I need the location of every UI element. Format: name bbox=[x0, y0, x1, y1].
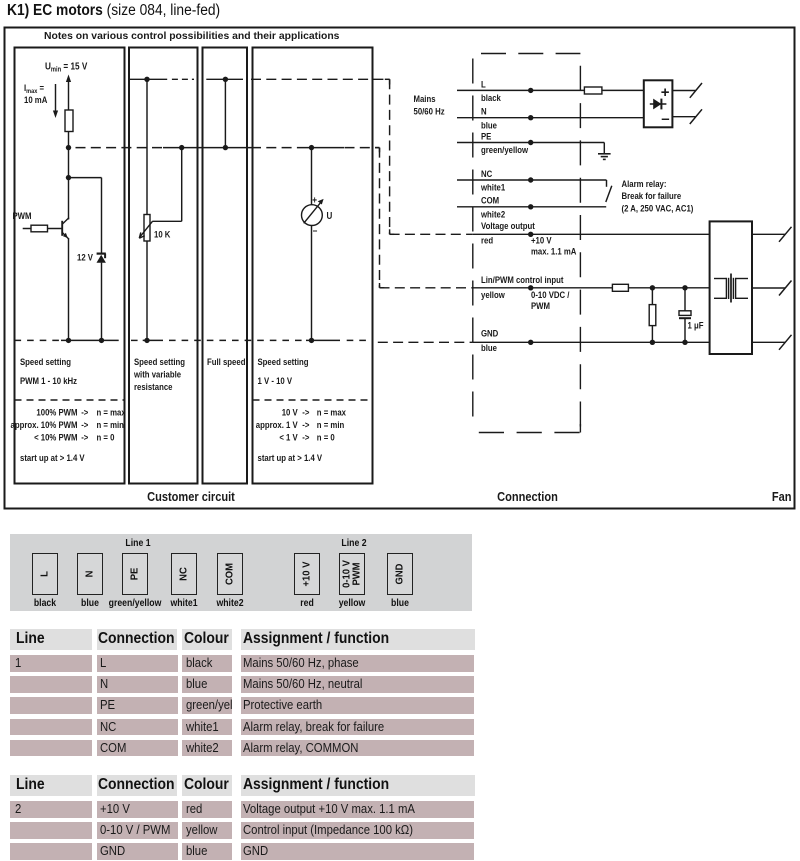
svg-text:Connection: Connection bbox=[497, 489, 558, 504]
svg-text:GND: GND bbox=[481, 328, 498, 339]
svg-text:blue: blue bbox=[481, 120, 497, 131]
svg-text:PWM: PWM bbox=[531, 300, 550, 311]
svg-text:Imax =: Imax = bbox=[24, 82, 44, 95]
svg-text:approx. 1 V: approx. 1 V bbox=[256, 419, 298, 430]
svg-text:n = 0: n = 0 bbox=[97, 432, 115, 443]
svg-text:Customer circuit: Customer circuit bbox=[147, 489, 235, 504]
svg-text:->: -> bbox=[81, 407, 88, 418]
svg-text:< 1 V: < 1 V bbox=[279, 432, 298, 443]
svg-text:N: N bbox=[481, 106, 487, 117]
svg-text:–: – bbox=[661, 111, 669, 128]
svg-text:n = min: n = min bbox=[317, 419, 344, 430]
svg-text:n = max: n = max bbox=[97, 407, 126, 418]
svg-text:approx. 10% PWM: approx. 10% PWM bbox=[11, 419, 78, 430]
svg-text:->: -> bbox=[302, 432, 309, 443]
svg-text:Notes on various control possi: Notes on various control possibilities a… bbox=[44, 31, 340, 42]
svg-text:max. 1.1 mA: max. 1.1 mA bbox=[531, 246, 577, 257]
svg-text:NC: NC bbox=[481, 168, 493, 179]
svg-text:white1: white1 bbox=[480, 182, 505, 193]
svg-text:100% PWM: 100% PWM bbox=[36, 407, 77, 418]
svg-text:< 10% PWM: < 10% PWM bbox=[34, 432, 77, 443]
svg-text:–: – bbox=[313, 225, 318, 236]
svg-text:n = max: n = max bbox=[317, 407, 346, 418]
svg-text:Full speed: Full speed bbox=[207, 356, 245, 367]
svg-text:PWM 1 - 10 kHz: PWM 1 - 10 kHz bbox=[20, 375, 78, 386]
svg-text:Break for failure: Break for failure bbox=[622, 190, 682, 201]
svg-text:->: -> bbox=[81, 419, 88, 430]
svg-text:(2 A, 250 VAC, AC1): (2 A, 250 VAC, AC1) bbox=[622, 203, 694, 214]
svg-text:10 mA: 10 mA bbox=[24, 94, 48, 105]
svg-text:start up at > 1.4 V: start up at > 1.4 V bbox=[20, 452, 85, 463]
svg-text:start up at > 1.4 V: start up at > 1.4 V bbox=[258, 452, 323, 463]
svg-text:Voltage output: Voltage output bbox=[481, 220, 535, 231]
svg-text:white2: white2 bbox=[480, 209, 505, 220]
svg-text:1 μF: 1 μF bbox=[688, 320, 704, 331]
svg-text:+: + bbox=[312, 195, 317, 206]
svg-text:Umin = 15 V: Umin = 15 V bbox=[45, 61, 88, 74]
svg-text:Alarm relay:: Alarm relay: bbox=[622, 178, 667, 189]
svg-text:black: black bbox=[481, 92, 501, 103]
svg-text:L: L bbox=[481, 79, 486, 90]
svg-text:Speed setting: Speed setting bbox=[134, 356, 185, 367]
svg-text:10 V: 10 V bbox=[282, 407, 298, 418]
svg-text:12 V: 12 V bbox=[77, 252, 93, 263]
svg-text:blue: blue bbox=[481, 342, 497, 353]
svg-text:PE: PE bbox=[481, 131, 492, 142]
svg-text:->: -> bbox=[81, 432, 88, 443]
svg-text:->: -> bbox=[302, 407, 309, 418]
svg-text:n = min: n = min bbox=[97, 419, 124, 430]
svg-text:with variable: with variable bbox=[133, 369, 181, 380]
svg-text:COM: COM bbox=[481, 195, 499, 206]
svg-text:Speed setting: Speed setting bbox=[258, 356, 309, 367]
svg-text:n = 0: n = 0 bbox=[317, 432, 335, 443]
svg-text:+10 V: +10 V bbox=[531, 235, 552, 246]
svg-text:1 V - 10 V: 1 V - 10 V bbox=[258, 375, 293, 386]
svg-text:0-10 VDC /: 0-10 VDC / bbox=[531, 289, 570, 300]
svg-text:green/yellow: green/yellow bbox=[481, 144, 528, 155]
svg-text:10 K: 10 K bbox=[154, 229, 171, 240]
svg-text:50/60 Hz: 50/60 Hz bbox=[414, 106, 446, 117]
svg-text:+: + bbox=[661, 84, 670, 101]
svg-text:PWM: PWM bbox=[13, 210, 32, 221]
svg-text:Speed setting: Speed setting bbox=[20, 356, 71, 367]
svg-text:Fan: Fan bbox=[772, 489, 792, 504]
svg-text:red: red bbox=[481, 235, 493, 246]
svg-text:resistance: resistance bbox=[134, 381, 173, 392]
svg-text:->: -> bbox=[302, 419, 309, 430]
svg-text:Mains: Mains bbox=[414, 93, 436, 104]
svg-text:U: U bbox=[327, 210, 333, 221]
svg-text:yellow: yellow bbox=[481, 289, 505, 300]
svg-text:Lin/PWM control input: Lin/PWM control input bbox=[481, 274, 564, 285]
